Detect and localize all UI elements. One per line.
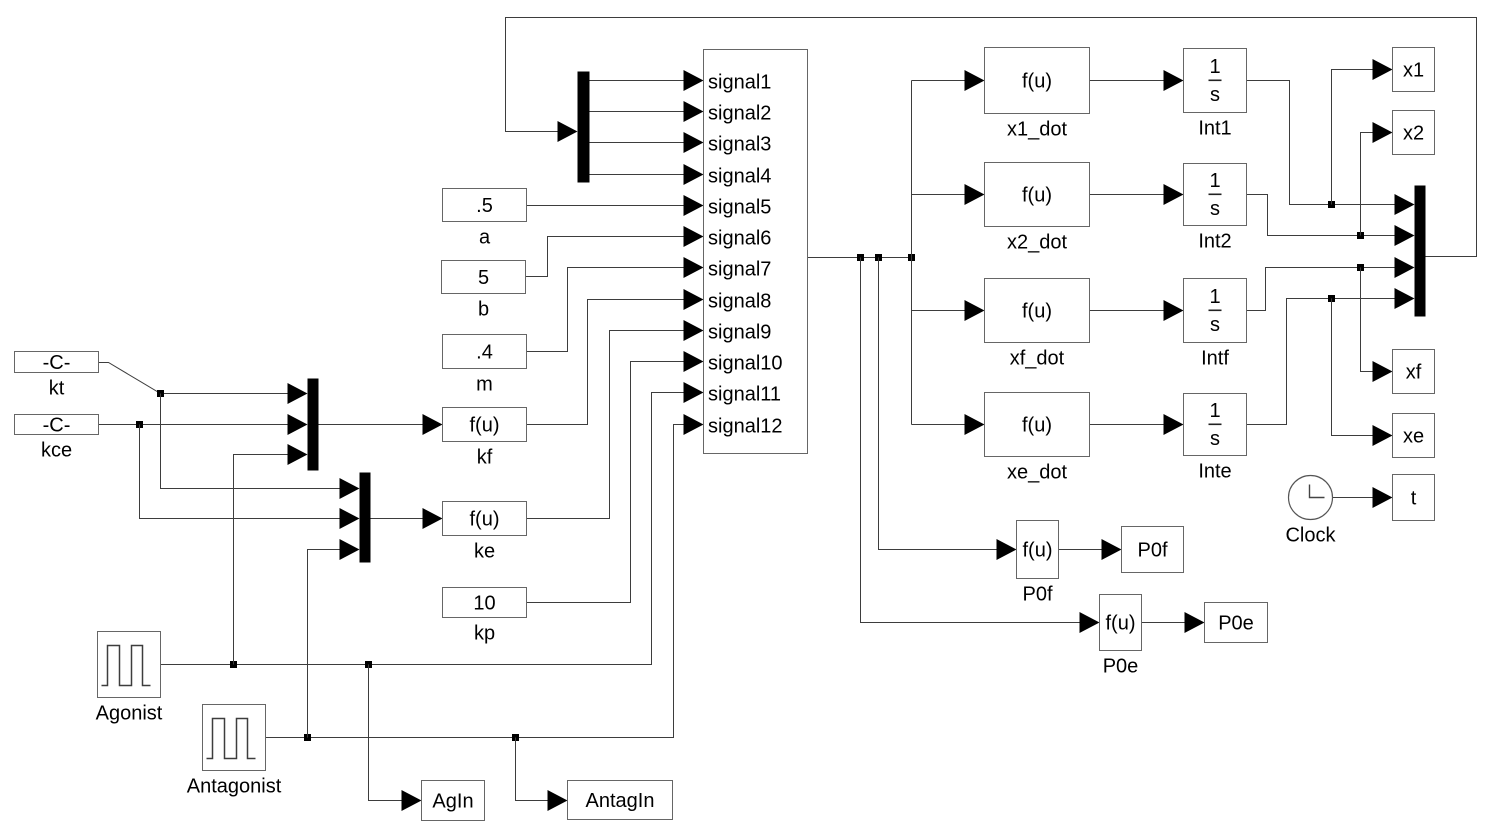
svg-text:signal4: signal4 xyxy=(708,166,771,188)
wire branch to xf xyxy=(1361,268,1393,383)
svg-text:xf: xf xyxy=(1406,362,1422,384)
svg-text:Intf: Intf xyxy=(1201,348,1229,370)
svg-text:signal12: signal12 xyxy=(708,416,783,438)
clock Clock xyxy=(1285,476,1336,547)
wire Intf to output mux input3 xyxy=(1247,257,1415,311)
constant kce xyxy=(15,415,99,462)
fcn xf_dot xyxy=(985,279,1090,370)
wire bus from signal block output xyxy=(808,257,912,259)
svg-text:signal11: signal11 xyxy=(708,384,781,406)
junction Int1-x1 xyxy=(1328,201,1335,208)
svg-text:5: 5 xyxy=(478,267,489,289)
svg-text:1: 1 xyxy=(1209,400,1220,422)
svg-text:.4: .4 xyxy=(476,342,493,364)
svg-text:signal2: signal2 xyxy=(708,103,771,125)
svg-text:Agonist: Agonist xyxy=(96,703,163,725)
svg-text:xe: xe xyxy=(1403,426,1424,448)
wire P0f fcn to P0f outport xyxy=(1059,539,1122,560)
fcn xe_dot xyxy=(985,393,1090,484)
wire bus to x1_dot xyxy=(912,70,985,91)
svg-text:signal6: signal6 xyxy=(708,228,771,250)
outport AntagIn xyxy=(568,781,673,820)
wire Antagonist output trunk to signal12 xyxy=(266,414,704,738)
constant kt xyxy=(15,352,99,400)
svg-text:P0e: P0e xyxy=(1218,613,1254,635)
svg-text:kt: kt xyxy=(49,378,65,400)
outport t xyxy=(1393,475,1435,521)
wire Agonist branch to AgIn xyxy=(369,665,422,812)
junction Intf-xf xyxy=(1357,264,1364,271)
svg-text:kf: kf xyxy=(477,447,493,469)
svg-text:1: 1 xyxy=(1209,286,1220,308)
svg-text:f(u): f(u) xyxy=(470,509,500,531)
svg-text:-C-: -C- xyxy=(43,415,71,437)
svg-text:1: 1 xyxy=(1209,56,1220,78)
constant kp xyxy=(443,588,527,645)
junction Int2-x2 xyxy=(1357,232,1364,239)
signal list block xyxy=(704,50,808,454)
svg-text:signal1: signal1 xyxy=(708,72,771,94)
svg-text:s: s xyxy=(1210,428,1220,450)
wire kf output to signal8 xyxy=(527,289,704,425)
svg-text:s: s xyxy=(1210,198,1220,220)
svg-text:P0f: P0f xyxy=(1022,584,1052,606)
wire kce branch to mux Mux2 input2 xyxy=(140,425,360,530)
svg-text:signal3: signal3 xyxy=(708,134,771,156)
wire Inte to output mux input4 xyxy=(1247,288,1415,425)
svg-text:x2_dot: x2_dot xyxy=(1007,232,1067,254)
constant b xyxy=(442,261,526,321)
wire bus to x2_dot xyxy=(912,184,985,205)
svg-text:s: s xyxy=(1210,84,1220,106)
wire branch to xe xyxy=(1332,299,1393,447)
integrator Int2 xyxy=(1184,164,1247,253)
svg-text:f(u): f(u) xyxy=(470,415,500,437)
fcn x1_dot xyxy=(985,48,1090,141)
svg-text:xf_dot: xf_dot xyxy=(1010,348,1065,370)
svg-text:Int1: Int1 xyxy=(1198,118,1231,140)
pulse generator Agonist xyxy=(96,632,163,725)
wire bus to xf_dot xyxy=(912,300,985,321)
wire Clock to t xyxy=(1333,487,1393,508)
svg-text:x1_dot: x1_dot xyxy=(1007,119,1067,141)
svg-text:x1: x1 xyxy=(1403,60,1424,82)
svg-text:f(u): f(u) xyxy=(1022,185,1052,207)
wire x1_dot to Int1 xyxy=(1090,70,1184,91)
svg-text:-C-: -C- xyxy=(43,352,71,374)
junction kce xyxy=(136,421,143,428)
svg-text:P0e: P0e xyxy=(1103,656,1139,678)
wire kt branch to mux Mux2 input1 xyxy=(161,394,360,500)
svg-text:xe_dot: xe_dot xyxy=(1007,462,1067,484)
wire Agonist output trunk to signal11 xyxy=(161,382,704,665)
junction bus-P0f xyxy=(875,254,882,261)
mux Mux1 bar xyxy=(308,379,319,471)
svg-text:f(u): f(u) xyxy=(1022,301,1052,323)
svg-text:signal8: signal8 xyxy=(708,291,771,313)
wire constant m to signal7 xyxy=(527,257,704,352)
svg-text:ke: ke xyxy=(474,541,495,563)
svg-text:f(u): f(u) xyxy=(1106,613,1136,635)
wire kce to mux Mux1 input2 xyxy=(99,414,308,435)
svg-text:Clock: Clock xyxy=(1285,525,1336,547)
wire Int1 to output mux input1 xyxy=(1247,81,1415,216)
outport xf xyxy=(1393,350,1435,394)
svg-text:1: 1 xyxy=(1209,170,1220,192)
wire demux output 1 to signal1 port xyxy=(590,70,704,91)
svg-text:s: s xyxy=(1210,314,1220,336)
outport x2 xyxy=(1393,111,1435,155)
junction Agonist-AgIn xyxy=(365,661,372,668)
wire branch to x1 xyxy=(1332,59,1393,205)
junction bus-main xyxy=(908,254,915,261)
svg-text:AgIn: AgIn xyxy=(432,791,473,813)
fcn ke xyxy=(443,502,527,563)
svg-text:Antagonist: Antagonist xyxy=(187,776,282,798)
wire bus to P0e fcn xyxy=(861,258,1100,634)
svg-text:kce: kce xyxy=(41,440,72,462)
wire bus to xe_dot xyxy=(912,414,985,435)
svg-text:Int2: Int2 xyxy=(1198,231,1231,253)
outport xe xyxy=(1393,414,1435,458)
svg-text:.5: .5 xyxy=(476,195,493,217)
svg-text:signal10: signal10 xyxy=(708,353,783,375)
svg-text:signal5: signal5 xyxy=(708,197,771,219)
wire constant a to signal5 xyxy=(527,195,704,216)
output mux bar xyxy=(1415,186,1426,317)
wire constant kp to signal10 xyxy=(527,351,704,603)
wire feedback loop from output mux to demux xyxy=(506,18,1477,257)
outport P0e xyxy=(1205,603,1268,643)
svg-text:m: m xyxy=(476,374,493,396)
wire Antagonist branch to mux Mux2 input3 xyxy=(308,539,360,738)
svg-text:Inte: Inte xyxy=(1198,461,1231,483)
junction Inte-xe xyxy=(1328,295,1335,302)
svg-text:f(u): f(u) xyxy=(1023,540,1053,562)
wire Agonist branch to mux Mux1 input3 xyxy=(234,444,308,665)
wire P0e fcn to P0e outport xyxy=(1142,612,1205,633)
fcn P0f xyxy=(1017,521,1059,606)
svg-text:f(u): f(u) xyxy=(1022,415,1052,437)
svg-text:x2: x2 xyxy=(1403,123,1424,145)
constant m xyxy=(443,335,527,396)
fcn x2_dot xyxy=(985,163,1090,254)
wire xe_dot to Inte xyxy=(1090,414,1184,435)
junction Agonist-mux1 xyxy=(230,661,237,668)
wire xf_dot to Intf xyxy=(1090,300,1184,321)
fcn P0e xyxy=(1100,595,1142,678)
outport P0f xyxy=(1122,527,1184,573)
wire kt to mux Mux1 input1 xyxy=(99,363,308,405)
svg-text:signal9: signal9 xyxy=(708,322,771,344)
wire Int2 to output mux input2 xyxy=(1247,195,1415,247)
fcn kf xyxy=(443,408,527,469)
wire mux Mux1 output to kf xyxy=(319,414,443,435)
wire Antagonist branch to AntagIn xyxy=(516,738,568,812)
junction bus-P0e xyxy=(857,254,864,261)
wire constant b to signal6 xyxy=(526,226,704,277)
junction Antagonist-mux2 xyxy=(304,734,311,741)
junction kt xyxy=(157,390,164,397)
svg-text:f(u): f(u) xyxy=(1022,71,1052,93)
wire x2_dot to Int2 xyxy=(1090,184,1184,205)
svg-text:b: b xyxy=(478,299,489,321)
svg-text:P0f: P0f xyxy=(1137,540,1167,562)
wire bus to P0f fcn xyxy=(879,258,1017,561)
wire mux Mux2 output to ke xyxy=(371,508,443,529)
integrator Inte xyxy=(1184,394,1247,483)
svg-text:kp: kp xyxy=(474,623,495,645)
constant a xyxy=(443,189,527,249)
svg-text:AntagIn: AntagIn xyxy=(586,790,655,812)
junction Antagonist-AntagIn xyxy=(512,734,519,741)
wire ke output to signal9 xyxy=(527,320,704,519)
svg-text:signal7: signal7 xyxy=(708,259,771,281)
wire demux output 4 to signal4 port xyxy=(590,164,704,185)
wire branch to x2 xyxy=(1361,122,1393,236)
wire demux output 2 to signal2 port xyxy=(590,101,704,122)
pulse generator Antagonist xyxy=(187,705,282,798)
svg-text:a: a xyxy=(479,227,491,249)
svg-text:t: t xyxy=(1411,488,1417,510)
outport x1 xyxy=(1393,48,1435,92)
mux Mux2 bar xyxy=(360,473,371,563)
wire bus vertical main xyxy=(911,81,913,425)
integrator Int1 xyxy=(1184,49,1247,140)
integrator Intf xyxy=(1184,279,1247,370)
svg-text:10: 10 xyxy=(473,593,495,615)
demux bar xyxy=(578,72,590,183)
wire demux output 3 to signal3 port xyxy=(590,132,704,153)
outport AgIn xyxy=(422,781,485,821)
